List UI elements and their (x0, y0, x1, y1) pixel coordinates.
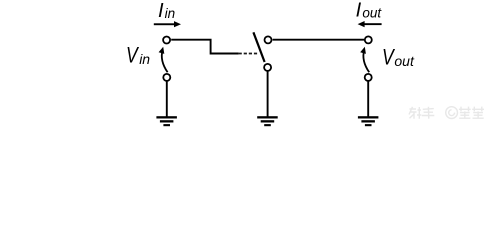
ground right (358, 116, 379, 126)
ground left (156, 116, 177, 126)
voltage arrow Vout (curved) (360, 47, 369, 73)
wire right to ground (367, 82, 369, 118)
switch top contact circle (265, 36, 272, 43)
svg-text:out: out (394, 53, 415, 69)
svg-text:I: I (356, 0, 362, 22)
svg-text:out: out (362, 6, 382, 21)
left bottom terminal circle (163, 74, 170, 81)
svg-text:in: in (165, 6, 176, 21)
switch bottom contact circle (264, 64, 271, 71)
wire output top (273, 39, 364, 41)
wire middle to ground (267, 72, 269, 118)
wire left to ground (166, 82, 168, 118)
node terminal input (left top circle) (163, 37, 170, 44)
ground middle (257, 116, 278, 126)
svg-text:I: I (158, 0, 164, 22)
current arrow Iout (points left) (358, 21, 382, 27)
watermark zhihu (409, 107, 484, 119)
wire dashed segment (239, 53, 259, 55)
right bottom terminal circle (365, 74, 372, 81)
wire input stepped (171, 40, 238, 54)
svg-text:V: V (382, 46, 395, 70)
switch lever S1 (253, 32, 264, 62)
node terminal output (right top circle) (365, 36, 372, 43)
svg-text:in: in (139, 51, 150, 67)
svg-text:V: V (126, 44, 139, 68)
voltage arrow Vin (curved) (159, 47, 168, 73)
current arrow Iin (154, 21, 181, 27)
